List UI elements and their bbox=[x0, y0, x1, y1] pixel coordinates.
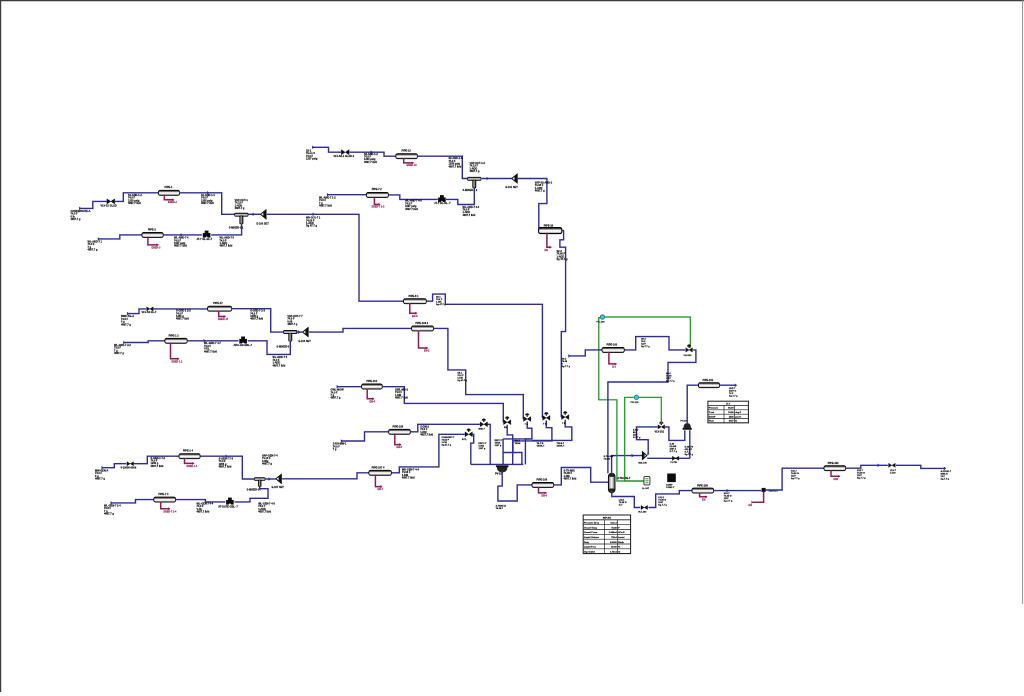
svg-text:AT-GATE-GBL- 7: AT-GATE-GBL- 7 bbox=[218, 506, 238, 509]
wire S9 to PIPE-100 bbox=[569, 350, 602, 356]
manifold bus bbox=[471, 463, 524, 465]
svg-text:JT-7 GL-GL-7: JT-7 GL-GL-7 bbox=[197, 238, 213, 241]
relief fitting PV-100 bbox=[496, 465, 509, 472]
svg-text:VLV-S4 GL-7: VLV-S4 GL-7 bbox=[142, 311, 157, 314]
svg-text:EN: EN bbox=[702, 498, 706, 501]
wire PIPE-14 to tee bbox=[200, 456, 255, 479]
feed arrow S5 bbox=[337, 385, 339, 389]
svg-text:S-MIXER-0 2: S-MIXER-0 2 bbox=[277, 346, 292, 349]
svg-text:JT-7 GL-GL- 7: JT-7 GL-GL- 7 bbox=[434, 202, 451, 205]
feed arrow S9 bbox=[568, 354, 570, 358]
level gauge LL-100 bbox=[644, 477, 650, 485]
flow arrow vapour line bbox=[632, 454, 634, 458]
wire S1-B to PIPE-2 bbox=[99, 235, 142, 239]
energy stream EN-102 bbox=[831, 470, 840, 476]
valve B (manifold, hatted) bbox=[480, 419, 487, 427]
wire recycle line bbox=[647, 457, 690, 459]
svg-text:ARC-GD-GBL-7: ARC-GD-GBL-7 bbox=[234, 344, 253, 347]
wire PIPE-105 to valve B bbox=[410, 424, 480, 432]
feed arrow S6 bbox=[341, 439, 343, 443]
valve V-10000 gate bbox=[127, 462, 134, 466]
svg-text:ENER-1 4: ENER-1 4 bbox=[187, 465, 198, 468]
valve VLV-100 bottoms bbox=[641, 505, 648, 509]
wire V9 return to separator top bbox=[608, 350, 696, 473]
flow arrow into E-100 bbox=[253, 213, 255, 217]
svg-text:V-10000-0006: V-10000-0006 bbox=[121, 467, 137, 470]
svg-text:1.74e4: 1.74e4 bbox=[610, 551, 617, 554]
svg-text:E-107 SET: E-107 SET bbox=[272, 486, 285, 489]
pipe PIPE-17 bbox=[208, 306, 232, 311]
wire S4B to PIPE-12 bbox=[124, 341, 165, 343]
svg-text:EN-4: EN-4 bbox=[370, 400, 376, 403]
energy stream EN-108 bbox=[700, 493, 707, 497]
feed arrow condensate bbox=[79, 207, 81, 211]
wire valve to PIPE-13 bbox=[350, 152, 397, 156]
valve JT-1 globe bbox=[203, 231, 211, 238]
svg-text:Duty: Duty bbox=[584, 541, 590, 544]
product arrow final bbox=[944, 467, 946, 471]
manifold wire v-left bbox=[502, 439, 504, 465]
wire PV-101 to PIPE-101 bbox=[687, 385, 698, 423]
wire PIPE-15 to globe valve bbox=[176, 500, 226, 502]
svg-text:PIPE-7 4: PIPE-7 4 bbox=[158, 493, 169, 496]
svg-text:ENER-13: ENER-13 bbox=[407, 164, 418, 167]
svg-text:VLV-S2-1 GLAD-1: VLV-S2-1 GLAD-1 bbox=[334, 155, 355, 158]
svg-text:Liquid Volume: Liquid Volume bbox=[584, 537, 600, 539]
energy stream Q-100 bbox=[609, 352, 617, 364]
flow arrow S2-1-2 bbox=[371, 150, 373, 154]
energy stream ENER-15 bbox=[161, 502, 170, 509]
wire PIPE-104 to valve C bbox=[382, 387, 503, 423]
svg-text:deg-F: deg-F bbox=[735, 412, 742, 414]
svg-text:%: % bbox=[618, 547, 620, 549]
energy stream EN-10 bbox=[547, 233, 551, 247]
compressor block COMP-100 bbox=[667, 474, 676, 483]
wire globe valve to tee MIXER-7 stem bbox=[235, 486, 269, 502]
svg-text:PIPE-10: PIPE-10 bbox=[544, 224, 554, 227]
svg-text:Pressure: Pressure bbox=[709, 408, 719, 410]
svg-text:PV-7B: PV-7B bbox=[671, 462, 678, 464]
svg-text:PIPE-104: PIPE-104 bbox=[366, 380, 377, 383]
wire PV-100 to PIPE-106 bbox=[498, 471, 532, 501]
svg-text:PIPE-8 1: PIPE-8 1 bbox=[409, 295, 420, 298]
energy stream ENER-14 bbox=[185, 458, 194, 463]
controller PIC-100 (top) bbox=[600, 315, 604, 319]
valve A (manifold, hatted) bbox=[465, 429, 472, 437]
wire S7A to valve bbox=[102, 464, 126, 468]
svg-text:VLV-101: VLV-101 bbox=[655, 430, 665, 433]
wire E-107 to PIPE-107 bbox=[282, 473, 369, 479]
svg-text:726.4: 726.4 bbox=[611, 536, 617, 539]
wire valve A to bus bbox=[471, 434, 474, 464]
wire PIPE-17 to tee bbox=[232, 309, 284, 332]
svg-text:PIC-100: PIC-100 bbox=[597, 322, 606, 324]
wire valve to PIPE-14 bbox=[134, 456, 180, 464]
energy stream from TEE-100 bbox=[753, 492, 763, 502]
svg-text:Vessel Temp: Vessel Temp bbox=[584, 527, 598, 529]
pipe PIPE-14 bbox=[179, 454, 200, 459]
energy stream ENER-7 bbox=[374, 197, 380, 205]
svg-text:ENER-7 2-3: ENER-7 2-3 bbox=[372, 206, 386, 209]
product arrow PIPE-101 outlet bbox=[735, 383, 737, 387]
wire condensate to valve bbox=[80, 201, 107, 208]
svg-text:ENER-2: ENER-2 bbox=[168, 201, 177, 204]
svg-text:PIPE-107 4: PIPE-107 4 bbox=[372, 466, 385, 469]
svg-text:74.38: 74.38 bbox=[611, 526, 617, 529]
svg-text:0.0000: 0.0000 bbox=[610, 542, 617, 544]
valve JT-GLA gate bbox=[438, 195, 446, 202]
pipe PIPE-100 bbox=[602, 347, 624, 352]
signal line PIC-101 to VLV-101 bbox=[639, 397, 661, 423]
valve VLV-S4 gate bbox=[147, 307, 154, 311]
wire PIPE-8 jog to valve E bbox=[426, 294, 542, 418]
svg-text:50.00: 50.00 bbox=[611, 547, 617, 549]
svg-text:E-104 SET: E-104 SET bbox=[299, 340, 312, 343]
svg-text:EN-7: EN-7 bbox=[378, 488, 384, 491]
wire MIX-100 up to VLV-101 bbox=[637, 429, 649, 454]
svg-text:PIPE-103 2: PIPE-103 2 bbox=[415, 322, 428, 325]
tee MIXER-0 bbox=[235, 213, 248, 224]
wire PIPE-13 to tee bbox=[417, 156, 468, 178]
valve E (manifold, hatted) bbox=[543, 412, 550, 420]
feed arrow S4B bbox=[123, 341, 125, 345]
valve AT-GATE globe bbox=[226, 498, 234, 505]
svg-text:TEE-NO-7: TEE-NO-7 bbox=[768, 491, 779, 493]
svg-text:7 B: 7 B bbox=[525, 424, 529, 426]
svg-text:psi-G: psi-G bbox=[735, 416, 741, 418]
valve VLV-101 control bbox=[658, 422, 665, 430]
energy stream ENER-2 bbox=[164, 195, 174, 200]
mixer cone E-100 bbox=[260, 210, 266, 220]
wire V8 to product outlet bbox=[896, 465, 945, 468]
wire S7B to PIPE-15 bbox=[111, 500, 153, 503]
wire E-101 to PIPE-10 bbox=[518, 179, 547, 229]
pipe PIPE-1 bbox=[158, 190, 179, 195]
svg-text:E-100 SET: E-100 SET bbox=[257, 222, 270, 225]
wire globe valve to tee MIXER-4 stem bbox=[248, 341, 291, 355]
tee MIXER-7 bbox=[254, 478, 265, 487]
svg-text:PIPE-105: PIPE-105 bbox=[393, 425, 404, 428]
wire S2-1 to valve bbox=[313, 147, 341, 152]
svg-text:ENER-17: ENER-17 bbox=[218, 318, 229, 321]
pipe PIPE-12 bbox=[165, 338, 187, 343]
valve V8 outlet bbox=[889, 463, 896, 467]
svg-text:1545: 1545 bbox=[729, 415, 735, 418]
wire tee to cone E-107 bbox=[265, 478, 276, 480]
valve PV-100b bbox=[672, 456, 679, 460]
energy stream EN-8 bbox=[410, 303, 417, 313]
wire valve to PIPE-1 bbox=[115, 193, 159, 202]
svg-text:PIPE-1: PIPE-1 bbox=[165, 186, 174, 189]
pipe PIPE-107 bbox=[369, 470, 392, 475]
wire S6 to PIPE-105 bbox=[342, 432, 389, 441]
svg-text:ENER-1 2: ENER-1 2 bbox=[172, 360, 183, 363]
wire tee to cone E-100 bbox=[248, 213, 261, 215]
svg-text:B-7L: B-7L bbox=[462, 439, 468, 441]
svg-text:PIPE-100: PIPE-100 bbox=[607, 344, 618, 347]
flow arrow S12 bbox=[878, 464, 880, 468]
pipe PIPE-7 bbox=[366, 192, 388, 197]
svg-text:VLV-100: VLV-100 bbox=[638, 512, 647, 514]
pipe PIPE-106 bbox=[532, 482, 554, 487]
flow arrow S4B-2 bbox=[204, 339, 206, 343]
wire tee to cone E-101 bbox=[482, 178, 512, 180]
svg-text:VLV-S1 GLAD: VLV-S1 GLAD bbox=[101, 204, 117, 207]
feed arrow S2-1 bbox=[312, 146, 314, 150]
pipe PIPE-103 bbox=[412, 326, 434, 331]
svg-text:barrel: barrel bbox=[618, 537, 624, 539]
svg-text:T-out: T-out bbox=[709, 411, 715, 414]
page border right bbox=[1022, 0, 1024, 604]
junction TEE-100 bbox=[762, 488, 766, 492]
feed arrow S1-B bbox=[98, 237, 100, 241]
wire PIPE-106 to separator bbox=[554, 468, 609, 485]
wire separator bottoms to VLV-100b2 bbox=[612, 493, 640, 508]
svg-text:Liquid Perc: Liquid Perc bbox=[584, 547, 597, 549]
svg-text:PIPE-101: PIPE-101 bbox=[703, 379, 714, 382]
svg-text:EN2: EN2 bbox=[834, 478, 839, 481]
svg-text:PIPE-108: PIPE-108 bbox=[697, 484, 708, 487]
wire TEE-100 to PIPE-102 bbox=[766, 468, 825, 490]
pipe PIPE-101 bbox=[699, 383, 720, 388]
svg-text:EN: EN bbox=[545, 249, 549, 252]
table SEP-100 data bbox=[583, 515, 630, 554]
mixer cone E-107 bbox=[276, 474, 282, 484]
valve C (manifold, hatted) bbox=[504, 416, 511, 424]
wire PIPE-107 to valve A bbox=[391, 434, 465, 473]
svg-text:PIPE-17: PIPE-17 bbox=[213, 302, 223, 305]
mixer cone MIX-100 bbox=[642, 451, 647, 460]
wire separator vapour to MIX-100 bbox=[612, 456, 643, 474]
wire VLV-101 to PV-101 bbox=[665, 427, 685, 441]
wire VLV-101 left bbox=[637, 427, 659, 429]
svg-text:PIPE-1 2: PIPE-1 2 bbox=[169, 334, 180, 337]
svg-text:VLV-NO: VLV-NO bbox=[684, 355, 692, 357]
energy stream EN-106 bbox=[539, 487, 547, 493]
pipe PIPE-108 bbox=[692, 488, 714, 493]
valve VLV-S2-1 bbox=[341, 150, 349, 155]
energy stream EN-103 bbox=[419, 331, 428, 349]
svg-text:7 B: 7 B bbox=[543, 423, 547, 425]
svg-text:EN-6: EN-6 bbox=[542, 495, 548, 498]
flow arrow S1-B2 bbox=[181, 233, 183, 237]
wire PIPE-1 to tee bbox=[180, 193, 236, 215]
svg-text:S-MIXER-1 2: S-MIXER-1 2 bbox=[463, 189, 478, 192]
energy stream ENER-3 bbox=[148, 237, 158, 245]
pipe PIPE-13 bbox=[396, 154, 418, 159]
page border top bbox=[0, 0, 1024, 2]
separator vessel SEP-100 bbox=[608, 473, 615, 492]
wire PIPE-101 outlet bbox=[720, 384, 736, 386]
wire PIPE-100 to valve V9 bbox=[624, 337, 685, 350]
svg-text:Q-1: Q-1 bbox=[612, 366, 617, 369]
valve F (manifold, hatted) bbox=[562, 411, 569, 419]
signal line PIC-100 to valve V9 bbox=[605, 317, 690, 348]
svg-text:PIPE-106: PIPE-106 bbox=[537, 478, 548, 481]
svg-text:Btu/h: Btu/h bbox=[618, 541, 624, 544]
svg-text:EN-8: EN-8 bbox=[412, 315, 418, 318]
flow arrow S1-3 bbox=[207, 191, 209, 195]
mixer cone E-101 bbox=[511, 174, 517, 184]
svg-text:TW-B-7TANK-7: TW-B-7TANK-7 bbox=[557, 443, 566, 448]
svg-text:Flow: Flow bbox=[709, 421, 714, 423]
svg-text:kPa-G: kPa-G bbox=[618, 532, 625, 534]
wire PV-101 right leg down bbox=[689, 430, 691, 458]
wire VLV-100 to PIPE-108 bbox=[648, 491, 692, 508]
svg-text:B0B-7: B0B-7 bbox=[479, 429, 486, 431]
feed arrow S7B bbox=[111, 501, 113, 505]
pipe PIPE-105 bbox=[389, 429, 411, 434]
wire PIPE-102 to valve V8 bbox=[846, 465, 888, 468]
flow arrow into E-101 bbox=[487, 177, 489, 181]
wire S4A to valve bbox=[128, 309, 146, 314]
wire valve to PIPE-17 bbox=[153, 308, 208, 310]
svg-text:EN-5: EN-5 bbox=[397, 446, 403, 449]
feed arrow S4A bbox=[127, 312, 129, 316]
energy stream EN-105 bbox=[395, 434, 401, 445]
wire valve C to bus bbox=[507, 425, 513, 465]
svg-text:ENER-3: ENER-3 bbox=[152, 246, 161, 249]
svg-text:PIPE-102: PIPE-102 bbox=[828, 462, 839, 465]
svg-text:PIPE-13: PIPE-13 bbox=[402, 149, 412, 152]
svg-text:PIPE-2: PIPE-2 bbox=[148, 228, 157, 231]
wire S5 to PIPE-104 bbox=[338, 386, 362, 388]
tee MIXER-1 bbox=[468, 177, 481, 188]
signal line PIC-101 to LL-100 bbox=[625, 397, 644, 481]
page border left bbox=[0, 0, 2, 692]
svg-text:EN: EN bbox=[749, 504, 753, 507]
energy stream EN-104 bbox=[367, 388, 374, 398]
svg-text:1.088e4: 1.088e4 bbox=[609, 531, 618, 534]
energy stream ENER-17 bbox=[219, 311, 226, 317]
signal line PIC-100 down to LL-100 bbox=[599, 318, 644, 481]
flow arrow into E-104 bbox=[298, 330, 300, 334]
pipe PIPE-104 bbox=[362, 384, 383, 389]
flow arrow S10 bbox=[727, 489, 729, 493]
svg-text:PIPE-1 4: PIPE-1 4 bbox=[183, 450, 194, 453]
valve VLV-S1 bbox=[107, 199, 115, 204]
flow arrow S7A-3 bbox=[226, 454, 228, 458]
wire valve E to bus bbox=[513, 420, 552, 452]
svg-text:PV-10: PV-10 bbox=[495, 473, 502, 476]
energy stream EN-107 bbox=[375, 475, 382, 487]
svg-text:LL-107: LL-107 bbox=[642, 488, 650, 490]
svg-text:4737: 4737 bbox=[729, 420, 735, 423]
wire globe valve to tee stem bbox=[211, 224, 241, 235]
wire valve B to bus bbox=[488, 424, 491, 464]
manifold wire h1 bbox=[503, 438, 532, 440]
flow arrow into E-107 bbox=[269, 477, 271, 481]
wire PIPE-12 to globe valve bbox=[187, 340, 238, 342]
svg-text:96.00: 96.00 bbox=[728, 408, 734, 410]
pipe PIPE-10 bbox=[539, 228, 562, 234]
wire S2-B to PIPE-7 bbox=[328, 194, 367, 196]
svg-text:PIC-101: PIC-101 bbox=[631, 402, 640, 404]
relief fitting PV-101 bbox=[683, 423, 692, 430]
svg-text:74.98: 74.98 bbox=[728, 411, 734, 414]
svg-text:Vap Outlet: Vap Outlet bbox=[584, 551, 595, 554]
valve ARC-VLV globe bbox=[239, 337, 247, 344]
wire PIPE-2 to globe valve bbox=[163, 234, 202, 236]
tee MIXER-4 bbox=[284, 330, 297, 341]
svg-text:Vessel Press: Vessel Press bbox=[584, 532, 598, 534]
wire PIPE-108 to tee junction bbox=[714, 490, 762, 492]
wire E-104 to PIPE-103 bbox=[309, 328, 412, 332]
valve V9 control (VLV-100) bbox=[686, 344, 693, 352]
wire E-100 to PIPE-8 bbox=[267, 214, 404, 301]
svg-text:ENER-7 2-4: ENER-7 2-4 bbox=[164, 510, 178, 513]
wire PIPE-10 down to valve F bbox=[560, 231, 566, 418]
energy stream ENER-12 bbox=[171, 343, 179, 359]
energy stream ENER-13 bbox=[404, 158, 414, 163]
wire PIPE-7 to gate valve bbox=[389, 195, 438, 200]
wire gate valve to tee MIXER-1 stem bbox=[446, 188, 474, 205]
wire tee to cone E-104 bbox=[296, 331, 302, 333]
valve D (manifold, hatted) bbox=[524, 413, 531, 421]
svg-text:DeltaP: DeltaP bbox=[709, 415, 716, 418]
flow arrow after E-100 bbox=[313, 213, 315, 217]
wire PIPE-103 to valve D bbox=[434, 328, 524, 419]
pipe PIPE-2 bbox=[142, 232, 163, 237]
pipe PIPE-102 bbox=[824, 466, 846, 471]
svg-text:7 B: 7 B bbox=[562, 423, 566, 425]
svg-text:EN-2: EN-2 bbox=[424, 350, 430, 353]
svg-text:MIX-100: MIX-100 bbox=[639, 462, 648, 464]
svg-text:Pressure Drop: Pressure Drop bbox=[584, 523, 600, 525]
mixer cone E-104 bbox=[302, 327, 308, 337]
svg-text:5.0e-4: 5.0e-4 bbox=[610, 522, 617, 525]
controller PIC-101 bbox=[634, 395, 638, 399]
feed arrow S7A bbox=[102, 466, 104, 470]
wire valve D to bus bbox=[525, 422, 532, 465]
manifold wire h2 bbox=[503, 453, 522, 465]
wire valve F to bus bbox=[532, 420, 572, 441]
pipe PIPE-8 bbox=[404, 299, 427, 304]
pipe PIPE-15 bbox=[154, 497, 176, 502]
svg-text:E-101 SET: E-101 SET bbox=[506, 186, 519, 189]
feed arrow S2-B bbox=[327, 193, 329, 197]
svg-text:PIPE-7 2: PIPE-7 2 bbox=[372, 188, 383, 191]
table JT-100 data bbox=[708, 401, 749, 423]
